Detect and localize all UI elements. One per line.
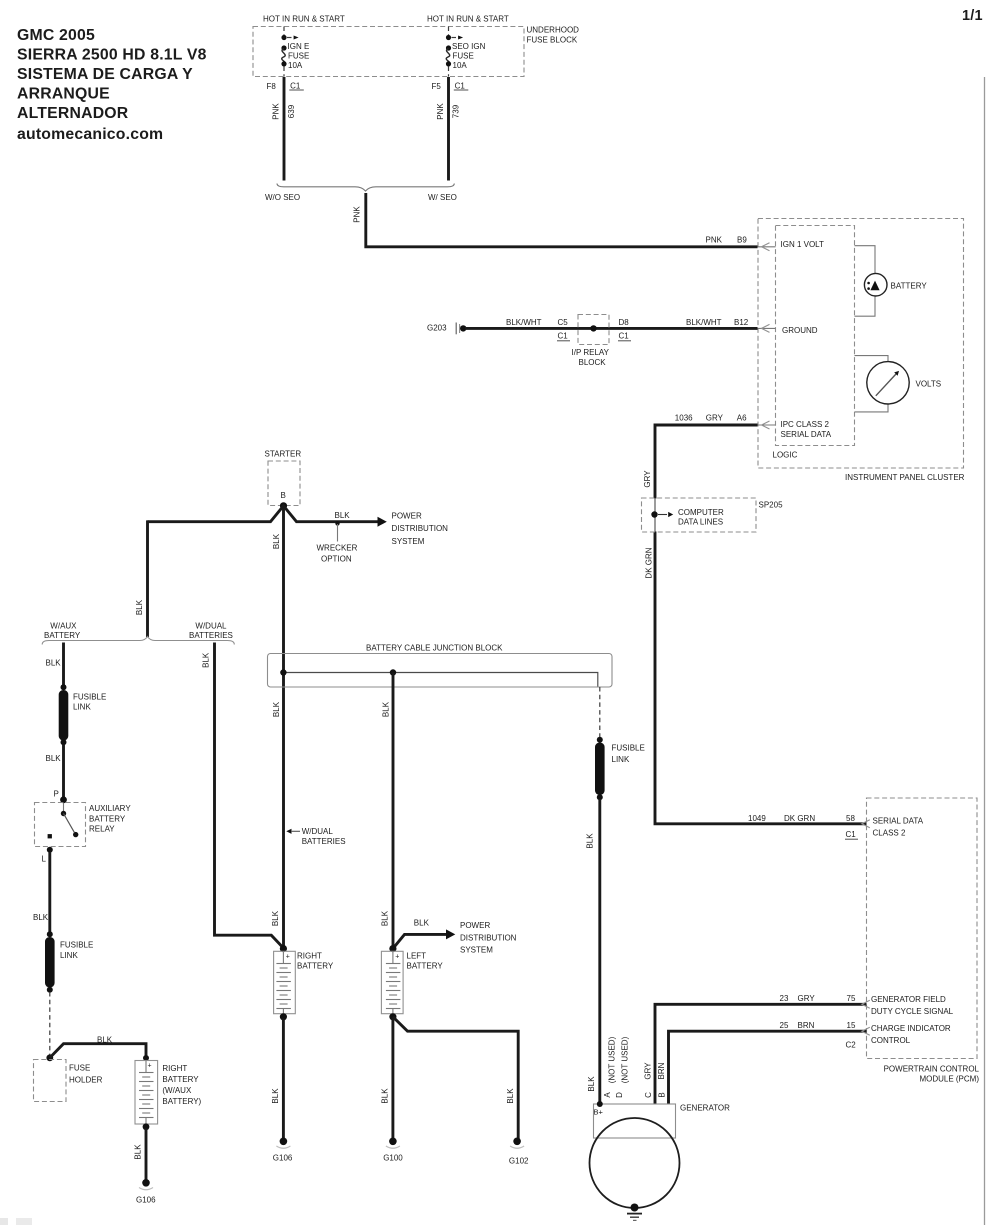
svg-text:SYSTEM: SYSTEM bbox=[392, 537, 425, 546]
svg-text:+: + bbox=[148, 1063, 152, 1070]
svg-text:CONTROL: CONTROL bbox=[871, 1036, 911, 1045]
svg-text:SYSTEM: SYSTEM bbox=[460, 946, 493, 955]
svg-text:IGN E: IGN E bbox=[288, 42, 310, 51]
svg-text:FUSE BLOCK: FUSE BLOCK bbox=[527, 35, 578, 44]
svg-text:C1: C1 bbox=[290, 81, 301, 90]
svg-text:B+: B+ bbox=[594, 1108, 604, 1117]
svg-text:1036: 1036 bbox=[675, 414, 693, 423]
svg-text:LINK: LINK bbox=[73, 702, 91, 711]
svg-text:A: A bbox=[603, 1092, 612, 1098]
svg-text:COMPUTER: COMPUTER bbox=[678, 508, 724, 517]
svg-text:1/1: 1/1 bbox=[962, 8, 983, 24]
svg-text:DISTRIBUTION: DISTRIBUTION bbox=[460, 934, 517, 943]
svg-text:LOGIC: LOGIC bbox=[773, 451, 798, 460]
svg-text:BLK/WHT: BLK/WHT bbox=[506, 318, 542, 327]
svg-text:PNK: PNK bbox=[271, 103, 280, 120]
svg-text:LINK: LINK bbox=[612, 755, 630, 764]
svg-text:SIERRA 2500 HD 8.1L V8: SIERRA 2500 HD 8.1L V8 bbox=[17, 46, 207, 63]
svg-text:BLK: BLK bbox=[135, 599, 144, 615]
svg-text:BRN: BRN bbox=[657, 1062, 666, 1079]
svg-text:BLK: BLK bbox=[271, 910, 280, 926]
svg-text:FUSE: FUSE bbox=[69, 1064, 90, 1073]
svg-text:10A: 10A bbox=[288, 61, 303, 70]
svg-text:BLK: BLK bbox=[380, 910, 389, 926]
svg-text:SP205: SP205 bbox=[759, 501, 784, 510]
svg-text:FUSE: FUSE bbox=[453, 51, 474, 60]
svg-text:MODULE (PCM): MODULE (PCM) bbox=[919, 1074, 979, 1083]
svg-text:IPC CLASS 2: IPC CLASS 2 bbox=[781, 420, 830, 429]
svg-text:FUSIBLE: FUSIBLE bbox=[612, 744, 645, 753]
svg-text:D8: D8 bbox=[619, 318, 630, 327]
svg-text:W/O SEO: W/O SEO bbox=[265, 193, 300, 202]
svg-text:WRECKER: WRECKER bbox=[317, 543, 358, 552]
svg-text:BLK: BLK bbox=[272, 533, 281, 549]
svg-text:BATTERY: BATTERY bbox=[891, 282, 928, 291]
svg-text:C1: C1 bbox=[558, 332, 569, 341]
svg-text:23: 23 bbox=[780, 994, 789, 1003]
svg-text:HOT IN RUN & START: HOT IN RUN & START bbox=[427, 14, 509, 23]
svg-text:C2: C2 bbox=[846, 1040, 857, 1049]
svg-text:CHARGE INDICATOR: CHARGE INDICATOR bbox=[871, 1024, 951, 1033]
svg-text:OPTION: OPTION bbox=[321, 554, 352, 563]
svg-text:BLK: BLK bbox=[272, 701, 281, 717]
svg-text:PNK: PNK bbox=[436, 103, 445, 120]
svg-text:G106: G106 bbox=[273, 1154, 293, 1163]
svg-text:BRN: BRN bbox=[798, 1021, 815, 1030]
svg-text:BLOCK: BLOCK bbox=[579, 358, 607, 367]
svg-text:IGN 1 VOLT: IGN 1 VOLT bbox=[781, 240, 825, 249]
svg-text:POWERTRAIN CONTROL: POWERTRAIN CONTROL bbox=[884, 1064, 980, 1073]
svg-text:GRY: GRY bbox=[644, 1062, 653, 1080]
svg-text:FUSIBLE: FUSIBLE bbox=[73, 692, 106, 701]
svg-text:BATTERIES: BATTERIES bbox=[189, 631, 233, 640]
svg-text:GENERATOR: GENERATOR bbox=[680, 1104, 730, 1113]
svg-text:ARRANQUE: ARRANQUE bbox=[17, 86, 110, 103]
svg-text:C1: C1 bbox=[846, 830, 857, 839]
svg-text:W/DUAL: W/DUAL bbox=[302, 827, 334, 836]
svg-text:G203: G203 bbox=[427, 323, 447, 332]
svg-text:15: 15 bbox=[847, 1021, 856, 1030]
svg-text:BATTERIES: BATTERIES bbox=[302, 837, 346, 846]
svg-text:RIGHT: RIGHT bbox=[297, 952, 322, 961]
svg-text:GRY: GRY bbox=[643, 470, 652, 488]
svg-text:UNDERHOOD: UNDERHOOD bbox=[527, 25, 580, 34]
svg-text:POWER: POWER bbox=[460, 921, 490, 930]
svg-text:GMC 2005: GMC 2005 bbox=[17, 27, 95, 44]
svg-text:C: C bbox=[644, 1092, 653, 1098]
svg-text:BLK: BLK bbox=[46, 658, 62, 667]
svg-text:ALTERNADOR: ALTERNADOR bbox=[17, 105, 129, 122]
svg-text:SERIAL DATA: SERIAL DATA bbox=[873, 817, 924, 826]
svg-text:BLK: BLK bbox=[587, 1076, 596, 1092]
svg-text:+: + bbox=[395, 954, 399, 961]
svg-text:+: + bbox=[286, 954, 290, 961]
svg-text:I/P RELAY: I/P RELAY bbox=[572, 348, 610, 357]
svg-text:BLK: BLK bbox=[414, 918, 430, 927]
svg-text:RIGHT: RIGHT bbox=[162, 1064, 187, 1073]
svg-text:BLK: BLK bbox=[506, 1088, 515, 1104]
svg-text:SISTEMA DE CARGA Y: SISTEMA DE CARGA Y bbox=[17, 66, 193, 83]
svg-text:1049: 1049 bbox=[748, 814, 766, 823]
svg-text:BATTERY: BATTERY bbox=[407, 962, 444, 971]
svg-text:B: B bbox=[281, 491, 286, 500]
svg-text:LEFT: LEFT bbox=[407, 952, 427, 961]
svg-text:G106: G106 bbox=[136, 1196, 156, 1205]
svg-text:L: L bbox=[42, 855, 47, 864]
svg-text:CLASS 2: CLASS 2 bbox=[873, 828, 906, 837]
svg-text:58: 58 bbox=[846, 814, 855, 823]
svg-text:C5: C5 bbox=[558, 318, 569, 327]
svg-text:G102: G102 bbox=[509, 1157, 529, 1166]
svg-text:GRY: GRY bbox=[798, 994, 816, 1003]
svg-text:(NOT USED): (NOT USED) bbox=[621, 1036, 630, 1083]
svg-text:739: 739 bbox=[451, 104, 460, 118]
svg-text:GROUND: GROUND bbox=[782, 326, 818, 335]
svg-text:FUSIBLE: FUSIBLE bbox=[60, 941, 93, 950]
svg-text:BLK: BLK bbox=[382, 701, 391, 717]
svg-text:LINK: LINK bbox=[60, 951, 78, 960]
svg-text:C1: C1 bbox=[455, 81, 466, 90]
svg-text:D: D bbox=[615, 1092, 624, 1098]
svg-text:POWER: POWER bbox=[392, 512, 422, 521]
svg-text:PNK: PNK bbox=[352, 206, 361, 223]
svg-text:C1: C1 bbox=[619, 332, 630, 341]
svg-text:DK GRN: DK GRN bbox=[645, 547, 654, 578]
svg-text:BLK: BLK bbox=[46, 754, 62, 763]
svg-text:10A: 10A bbox=[453, 61, 468, 70]
svg-text:W/AUX: W/AUX bbox=[50, 622, 77, 631]
svg-text:HOT IN RUN & START: HOT IN RUN & START bbox=[263, 14, 345, 23]
svg-text:BLK: BLK bbox=[201, 652, 210, 668]
svg-text:BATTERY: BATTERY bbox=[89, 815, 126, 824]
svg-text:SEO IGN: SEO IGN bbox=[452, 42, 486, 51]
svg-text:BLK: BLK bbox=[381, 1088, 390, 1104]
svg-text:PNK: PNK bbox=[706, 235, 723, 244]
svg-text:DISTRIBUTION: DISTRIBUTION bbox=[392, 524, 449, 533]
svg-text:VOLTS: VOLTS bbox=[916, 380, 942, 389]
svg-text:G100: G100 bbox=[383, 1154, 403, 1163]
svg-text:DUTY CYCLE SIGNAL: DUTY CYCLE SIGNAL bbox=[871, 1007, 954, 1016]
svg-text:BATTERY: BATTERY bbox=[162, 1075, 199, 1084]
svg-text:F5: F5 bbox=[432, 82, 442, 91]
svg-text:AUXILIARY: AUXILIARY bbox=[89, 804, 131, 813]
svg-text:BLK: BLK bbox=[271, 1088, 280, 1104]
svg-text:DK GRN: DK GRN bbox=[784, 814, 815, 823]
svg-text:(W/AUX: (W/AUX bbox=[162, 1086, 192, 1095]
svg-text:B12: B12 bbox=[734, 318, 749, 327]
svg-text:A6: A6 bbox=[737, 414, 747, 423]
svg-text:B: B bbox=[658, 1092, 667, 1097]
svg-text:W/ SEO: W/ SEO bbox=[428, 193, 457, 202]
svg-text:BLK/WHT: BLK/WHT bbox=[686, 318, 722, 327]
svg-text:BATTERY CABLE JUNCTION BLOCK: BATTERY CABLE JUNCTION BLOCK bbox=[366, 644, 503, 653]
svg-text:25: 25 bbox=[780, 1021, 789, 1030]
svg-text:HOLDER: HOLDER bbox=[69, 1076, 103, 1085]
svg-text:BLK: BLK bbox=[586, 833, 595, 849]
svg-text:BATTERY): BATTERY) bbox=[162, 1097, 201, 1106]
svg-text:SERIAL DATA: SERIAL DATA bbox=[781, 430, 832, 439]
svg-text:(NOT USED): (NOT USED) bbox=[608, 1036, 617, 1083]
svg-text:GENERATOR FIELD: GENERATOR FIELD bbox=[871, 995, 946, 1004]
svg-text:P: P bbox=[54, 790, 59, 799]
svg-text:GRY: GRY bbox=[706, 414, 724, 423]
svg-text:75: 75 bbox=[847, 994, 856, 1003]
svg-text:W/DUAL: W/DUAL bbox=[195, 622, 227, 631]
svg-text:F8: F8 bbox=[267, 82, 277, 91]
svg-text:B9: B9 bbox=[737, 235, 747, 244]
svg-text:STARTER: STARTER bbox=[265, 449, 302, 458]
svg-text:INSTRUMENT PANEL CLUSTER: INSTRUMENT PANEL CLUSTER bbox=[845, 473, 965, 482]
svg-text:RELAY: RELAY bbox=[89, 824, 115, 833]
svg-text:BLK: BLK bbox=[33, 913, 49, 922]
svg-text:BATTERY: BATTERY bbox=[297, 962, 334, 971]
svg-text:BLK: BLK bbox=[97, 1036, 113, 1045]
svg-text:BLK: BLK bbox=[134, 1144, 143, 1160]
svg-text:FUSE: FUSE bbox=[288, 51, 309, 60]
svg-text:DATA LINES: DATA LINES bbox=[678, 518, 723, 527]
svg-text:BATTERY: BATTERY bbox=[44, 631, 81, 640]
svg-text:BLK: BLK bbox=[335, 511, 351, 520]
svg-text:automecanico.com: automecanico.com bbox=[17, 126, 163, 143]
svg-text:639: 639 bbox=[287, 104, 296, 118]
